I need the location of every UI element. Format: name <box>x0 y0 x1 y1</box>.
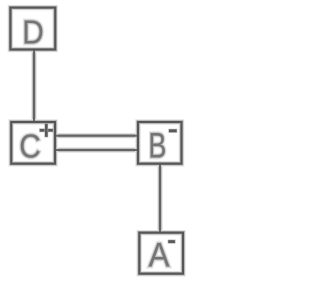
svg-text:C: C <box>19 127 41 164</box>
svg-text:B: B <box>148 127 166 166</box>
svg-text:A: A <box>149 236 170 274</box>
svg-text:D: D <box>22 14 44 51</box>
